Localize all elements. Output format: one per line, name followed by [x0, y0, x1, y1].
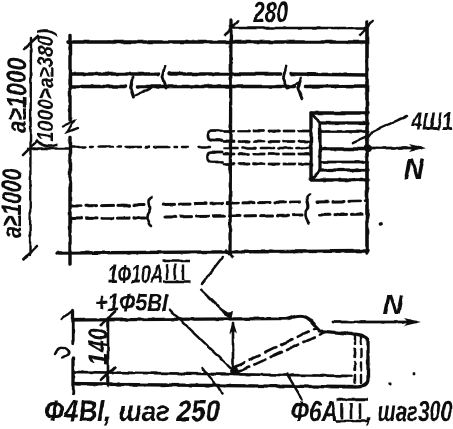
svg-text:N: N: [383, 289, 404, 320]
svg-text:а≥1000: а≥1000: [0, 169, 27, 238]
svg-text:N: N: [404, 153, 425, 186]
svg-text:Ф4ВI, шаг 250: Ф4ВI, шаг 250: [44, 395, 220, 428]
svg-text:280: 280: [252, 0, 288, 29]
svg-text:(1000>а≥380): (1000>а≥380): [33, 29, 58, 148]
svg-text:Ф6А: Ф6А: [291, 396, 338, 428]
svg-text:а≥1000: а≥1000: [1, 58, 32, 133]
svg-text:1Ф10А: 1Ф10А: [108, 259, 163, 289]
svg-text:+1Ф5ВI: +1Ф5ВI: [95, 289, 169, 317]
svg-text:140: 140: [83, 328, 113, 365]
svg-text:, шаг300: , шаг300: [365, 396, 452, 428]
svg-text:4Ш1: 4Ш1: [410, 108, 453, 136]
